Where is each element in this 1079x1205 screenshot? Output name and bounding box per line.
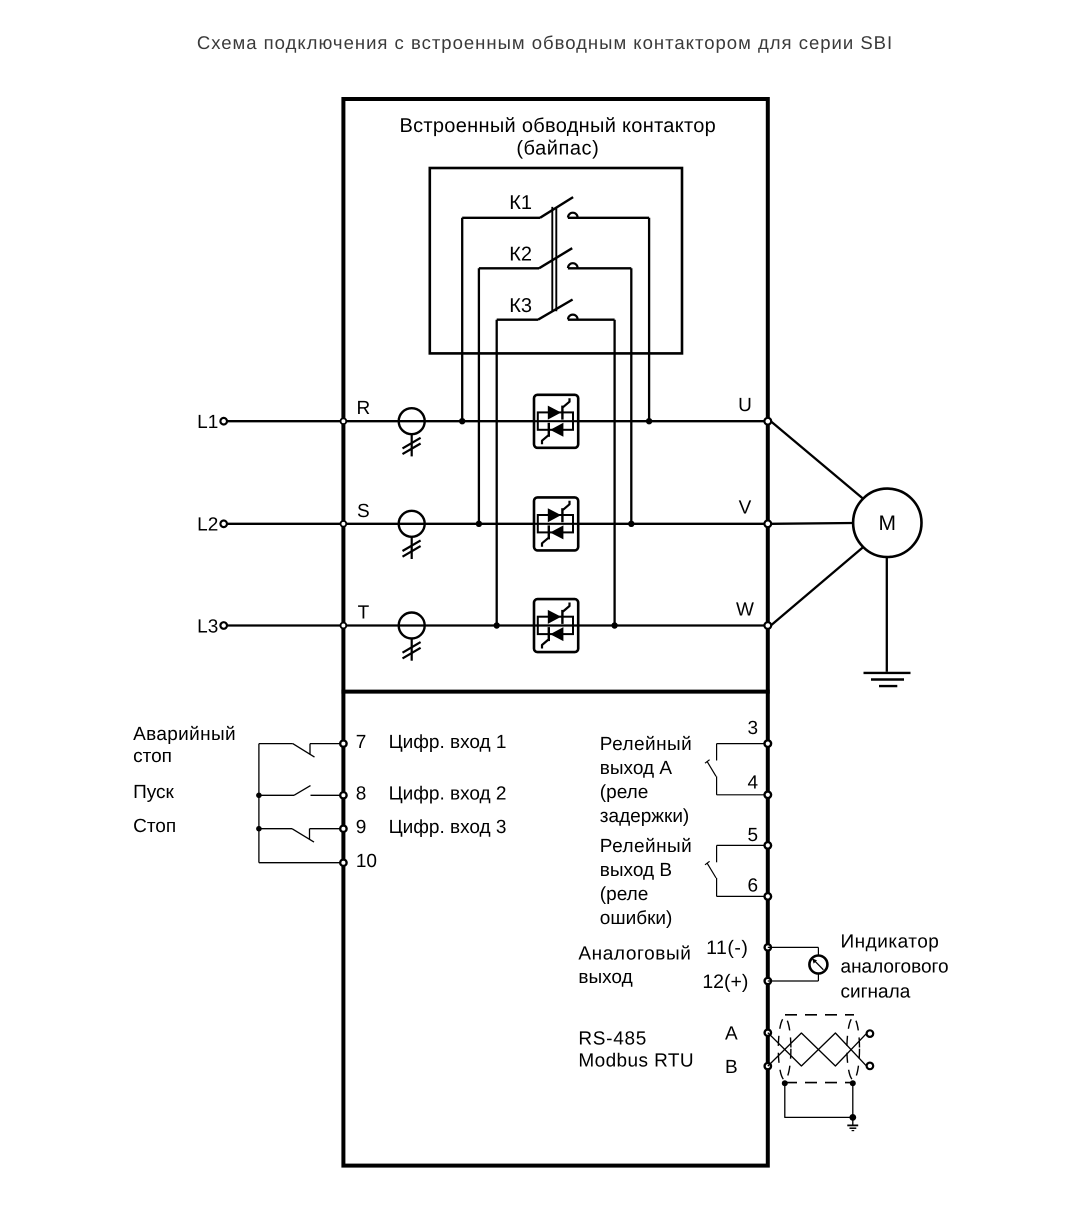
svg-text:S: S (357, 501, 370, 522)
shield node left (782, 1080, 788, 1086)
wire K2 left drop (478, 268, 480, 524)
svg-text:аналогового: аналогового (841, 957, 949, 978)
svg-text:M: M (879, 512, 897, 535)
svg-text:Цифр. вход 1: Цифр. вход 1 (389, 732, 507, 753)
svg-text:Аварийный: Аварийный (133, 724, 236, 745)
terminal 9 (340, 826, 346, 832)
svg-text:выход А: выход А (600, 758, 673, 779)
svg-text:11(-): 11(-) (706, 937, 748, 959)
svg-text:Modbus RTU: Modbus RTU (578, 1051, 694, 1072)
node stop rail (256, 826, 262, 832)
svg-text:Схема подключения с встроенным: Схема подключения с встроенным обводным … (197, 32, 893, 53)
svg-text:Цифр. вход 2: Цифр. вход 2 (389, 784, 507, 805)
phase line L2 (227, 523, 768, 525)
shield node right (850, 1080, 856, 1086)
output terminal W (764, 622, 771, 629)
terminal 5 (765, 842, 772, 849)
svg-text:L3: L3 (197, 616, 218, 637)
junction dot K3 right drop (611, 622, 617, 628)
wire K1 right drop (648, 218, 650, 421)
thyristor module T-W (534, 599, 578, 652)
wall junction R (341, 418, 347, 424)
current transformer on T (399, 613, 425, 661)
junction dot K3 left drop (494, 622, 500, 628)
analog signal indicator meter (809, 956, 827, 974)
bypass contactor box (430, 168, 682, 353)
svg-text:(реле: (реле (600, 782, 648, 803)
terminal 11 (765, 944, 771, 950)
svg-text:(реле: (реле (600, 884, 648, 905)
svg-text:R: R (357, 398, 371, 419)
junction dot K2 left drop (476, 521, 482, 527)
svg-text:A: A (725, 1024, 738, 1045)
current transformer on R (399, 408, 425, 456)
motor M (853, 489, 921, 557)
shield drain wire (785, 1083, 853, 1117)
twisted pair wire 2 (768, 1033, 867, 1066)
shield ground node (849, 1114, 856, 1121)
svg-text:6: 6 (748, 876, 759, 897)
svg-text:5: 5 (748, 825, 759, 846)
wire V to motor (771, 522, 853, 525)
ground symbol motor (864, 672, 911, 674)
thyristor module R-U (534, 395, 578, 448)
wire terminal 12 to indicator (768, 980, 819, 982)
terminal A (765, 1030, 771, 1036)
wire K2 right drop (630, 268, 632, 524)
svg-text:Пуск: Пуск (133, 782, 174, 803)
svg-text:9: 9 (356, 817, 367, 838)
wire terminal 11 to indicator (768, 946, 819, 948)
start NO switch (259, 786, 340, 796)
svg-text:задержки): задержки) (600, 806, 689, 827)
terminal 10 (340, 860, 346, 866)
terminal 4 (765, 792, 772, 799)
wire K3 left drop (496, 320, 498, 626)
cable terminal B right (867, 1063, 874, 1070)
terminal B (765, 1063, 771, 1069)
svg-text:L1: L1 (197, 412, 218, 433)
shield ground stub (852, 1117, 854, 1125)
svg-text:10: 10 (356, 851, 377, 872)
phase line L1 (227, 420, 768, 422)
svg-text:V: V (739, 498, 752, 519)
stop NC switch (259, 829, 340, 842)
svg-text:L2: L2 (197, 515, 218, 536)
terminal 6 (765, 893, 772, 900)
wire U to motor (771, 421, 863, 498)
svg-text:ошибки): ошибки) (600, 908, 673, 929)
node start rail (256, 793, 262, 799)
svg-text:Релейный: Релейный (600, 734, 692, 755)
motor ground wire (886, 557, 888, 672)
mechanical linkage (551, 207, 553, 311)
svg-text:Релейный: Релейный (600, 836, 692, 857)
wall junction S (341, 521, 347, 527)
svg-text:К2: К2 (509, 243, 532, 265)
output terminal U (764, 418, 771, 425)
svg-text:выход: выход (578, 967, 632, 988)
svg-text:(байпас): (байпас) (516, 137, 599, 159)
cable shield dashed (778, 1015, 859, 1083)
input terminal L1 (220, 418, 227, 425)
soft starter enclosure box (343, 99, 767, 1166)
svg-text:Индикатор: Индикатор (841, 932, 940, 953)
svg-text:стоп: стоп (133, 746, 172, 767)
svg-text:U: U (738, 395, 752, 416)
power/control divider line (341, 690, 769, 694)
contactor switch К2 (479, 248, 631, 268)
wire W to motor (771, 547, 863, 625)
svg-text:Аналоговый: Аналоговый (578, 943, 691, 964)
relay B contact (705, 845, 768, 896)
contactor switch К3 (497, 300, 615, 320)
junction dot K1 left drop (459, 418, 465, 424)
svg-text:RS-485: RS-485 (578, 1028, 647, 1049)
junction dot K1 right drop (646, 418, 652, 424)
cable terminal A right (867, 1030, 874, 1037)
terminal 7 (340, 740, 346, 746)
svg-text:4: 4 (748, 772, 759, 793)
svg-text:12(+): 12(+) (702, 971, 748, 993)
wall junction T (341, 623, 347, 629)
svg-text:T: T (358, 603, 370, 624)
terminal 12 (765, 978, 771, 984)
relay A contact (705, 744, 768, 795)
current transformer on S (399, 511, 425, 559)
svg-text:Встроенный обводный контактор: Встроенный обводный контактор (399, 115, 716, 137)
svg-text:Стоп: Стоп (133, 816, 176, 837)
svg-text:7: 7 (356, 732, 367, 753)
thyristor module S-V (534, 497, 578, 550)
svg-text:Цифр. вход 3: Цифр. вход 3 (389, 817, 507, 838)
input terminal L3 (220, 622, 227, 629)
svg-text:сигнала: сигнала (841, 982, 911, 1003)
twisted pair wire 1 (768, 1033, 867, 1066)
contactor switch К1 (462, 197, 649, 218)
wire K3 right drop (613, 320, 615, 626)
junction dot K2 right drop (628, 521, 634, 527)
terminal 8 (340, 792, 346, 798)
phase line L3 (227, 624, 768, 626)
common rail (258, 744, 260, 863)
wire to terminal 10 (259, 862, 340, 864)
output terminal V (764, 520, 771, 527)
svg-text:К1: К1 (509, 192, 532, 214)
emergency stop NC switch (259, 744, 340, 758)
wire K1 left drop (461, 218, 463, 421)
terminal 3 (765, 740, 772, 747)
svg-text:выход B: выход B (600, 860, 672, 881)
svg-text:3: 3 (748, 718, 759, 739)
ground symbol shield (847, 1124, 858, 1126)
svg-text:W: W (736, 599, 754, 620)
input terminal L2 (220, 521, 227, 528)
svg-text:8: 8 (356, 784, 367, 805)
svg-text:B: B (725, 1057, 738, 1078)
svg-text:К3: К3 (509, 295, 532, 317)
